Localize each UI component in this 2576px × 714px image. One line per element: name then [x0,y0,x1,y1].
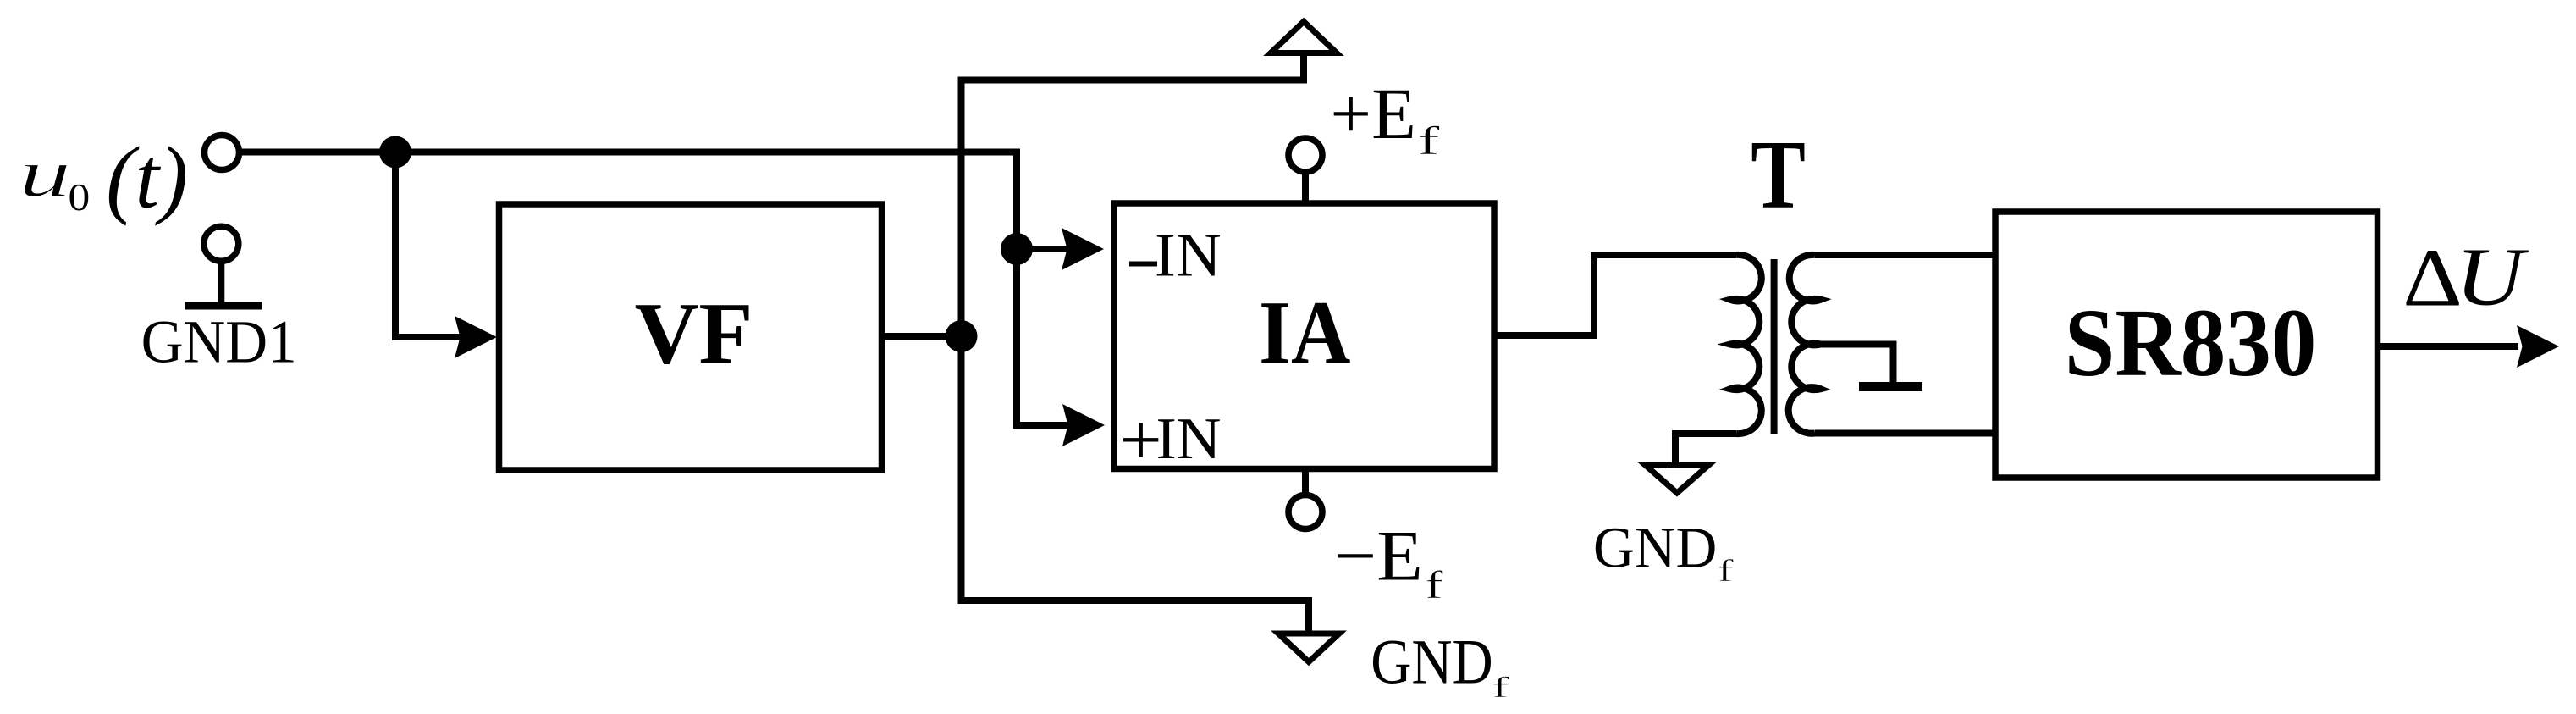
svg-text:f: f [1425,563,1443,607]
block SR830 box [1995,212,2378,478]
terminal +Ef stem [1302,172,1309,203]
svg-text:IA: IA [1259,284,1350,384]
wire u0 down to +IN level [1017,149,1068,426]
svg-text:SR830: SR830 [2065,290,2317,397]
node junction VF output on bus [946,320,978,352]
svg-text:f: f [1418,119,1441,163]
svg-text:VF: VF [635,285,753,382]
svg-text:+E: +E [1330,74,1415,153]
terminal +Ef circle [1288,138,1322,172]
svg-text:GND1: GND1 [141,308,297,376]
node junction on u0 line [379,136,411,169]
ground GND1 bar [185,302,262,310]
terminal circle u0 input [205,136,240,170]
wire secondary bottom lead [1815,430,1996,437]
terminal -Ef stem [1302,469,1309,495]
ground GND1 stem [218,261,224,306]
svg-text:−E: −E [1334,515,1423,595]
svg-text:f: f [1492,671,1509,704]
arrowhead into -IN [1062,228,1104,270]
transformer T core bar [1771,259,1778,434]
svg-text:IN: IN [1155,220,1222,289]
svg-text:GND: GND [1371,628,1492,698]
block VF box [499,204,882,470]
arrowhead output dU [2517,325,2559,368]
wire vertical bus [958,80,965,601]
svg-text:f: f [1718,554,1734,589]
transformer T secondary winding [1789,255,1821,434]
svg-text:T: T [1751,121,1806,230]
wire top to power arrow [958,54,1305,80]
svg-text:0: 0 [69,177,91,219]
ground GNDf open triangle down (transformer) [1646,466,1708,494]
wire u0 main horizontal [242,149,1017,156]
wire secondary top lead [1815,252,1996,258]
wire VF output [882,333,962,340]
node junction to -IN [1001,233,1033,265]
transformer T primary winding [1730,255,1762,434]
arrowhead into VF [455,316,497,358]
wire to -IN [1031,246,1068,252]
ground GNDf open triangle down (bottom) [1278,634,1339,662]
wire SR830 output [2378,343,2519,350]
arrowhead into +IN [1062,404,1105,446]
svg-text:IN: IN [1156,406,1222,472]
pin label -IN dash [1129,262,1157,267]
terminal -Ef circle [1288,495,1322,529]
svg-text:Δ: Δ [2402,233,2463,324]
wire primary bottom lead [1675,434,1736,464]
ground bar on secondary tap [1859,382,1922,391]
block IA box [1114,203,1494,469]
svg-text:u: u [19,136,71,211]
svg-text:U: U [2455,231,2529,323]
wire IA output to transformer primary [1494,255,1736,335]
wire secondary center tap [1821,345,1894,384]
svg-text:(t): (t) [106,130,188,227]
svg-text:GND: GND [1593,515,1717,580]
wire bottom to GNDf [958,601,1310,632]
ground GND1 terminal circle [204,226,239,261]
power symbol open triangle up [1271,22,1337,53]
wire branch down to VF input [395,152,461,338]
